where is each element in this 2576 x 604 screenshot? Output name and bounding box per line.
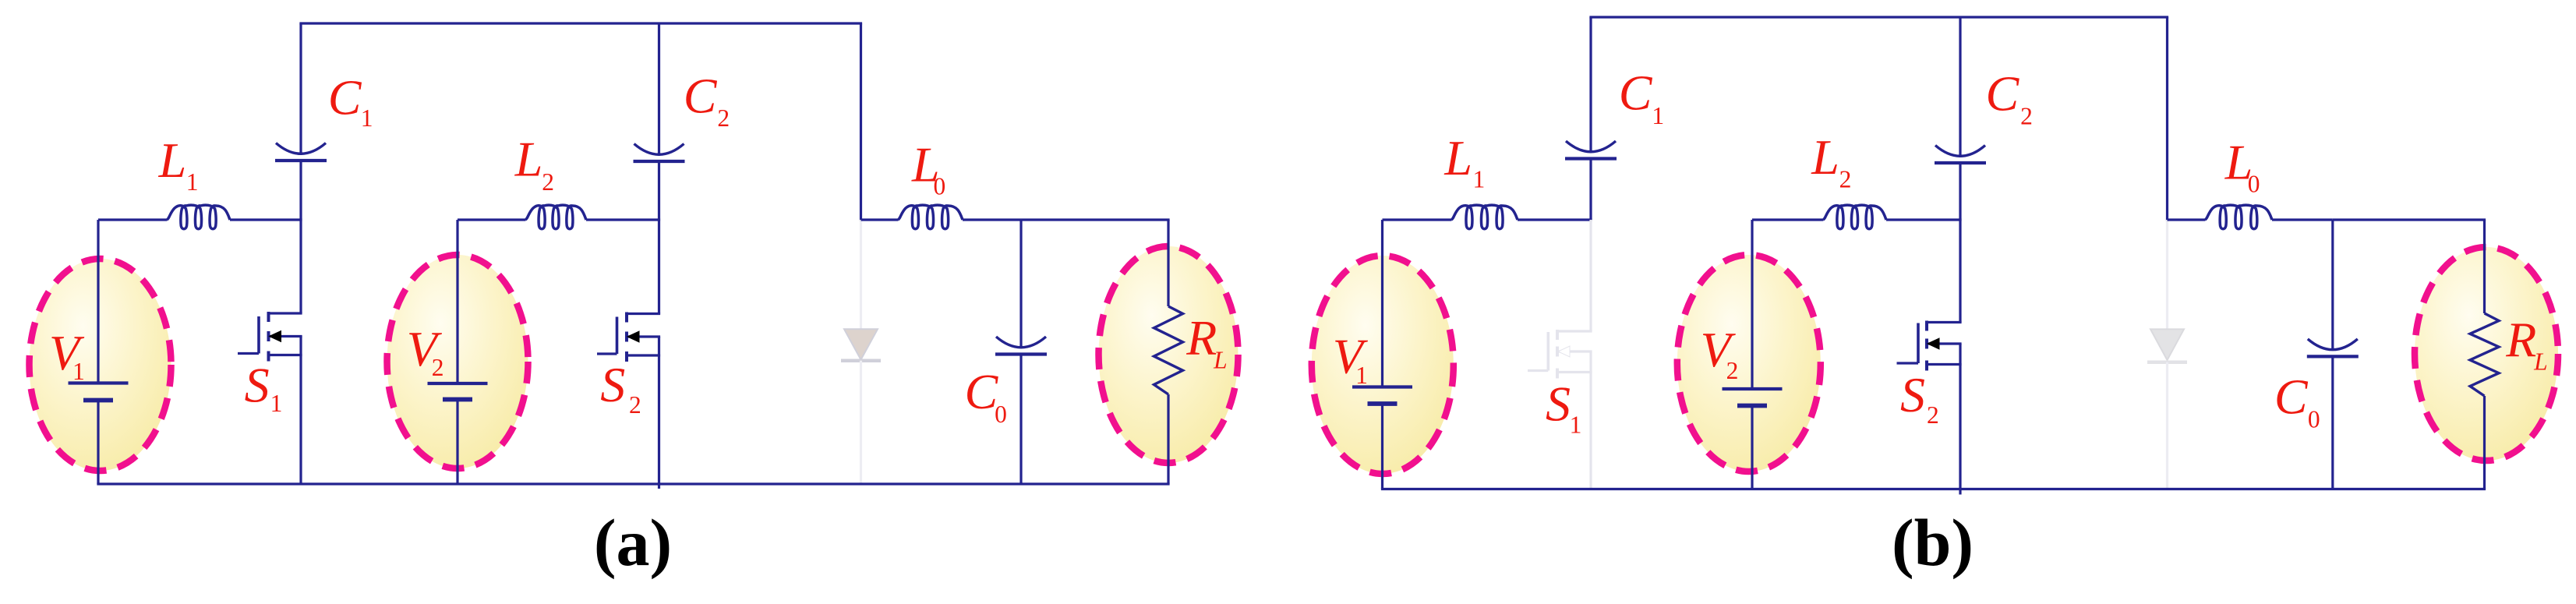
wire node to L0 (b) bbox=[2168, 218, 2206, 221]
wire RL top lead bbox=[1167, 220, 1169, 306]
capacitor C2 bbox=[634, 144, 684, 155]
wire V2 to L2 (b) bbox=[1752, 218, 1823, 221]
wire L2 to C2 node (b) bbox=[1886, 218, 1962, 221]
battery V1 bbox=[69, 381, 129, 384]
svg-text:C: C bbox=[684, 69, 718, 124]
wire diode anode (b, gray) bbox=[2166, 220, 2168, 329]
transistor S2 (b) bbox=[1925, 321, 1928, 331]
wire top rail right riser (b) bbox=[2166, 17, 2168, 221]
voltage source V1 bottom lead bbox=[97, 401, 99, 485]
voltage source V2 bottom lead bbox=[456, 400, 458, 485]
voltage source V1 top lead (b) bbox=[1381, 220, 1383, 387]
svg-text:1: 1 bbox=[72, 358, 85, 385]
voltage source V2 top lead bbox=[456, 220, 458, 383]
wire C1 to node L1 (b) bbox=[1589, 159, 1592, 221]
voltage source V2 bottom lead (b) bbox=[1751, 406, 1753, 489]
wire L1 to C1/S1 node bbox=[230, 218, 302, 221]
wire bottom rail (a) bbox=[97, 482, 1169, 485]
highlight ellipse around V2 bbox=[387, 255, 528, 468]
wire diode anode (inactive, gray) bbox=[860, 220, 862, 329]
wire S1 drain (b, inactive gray) bbox=[1589, 220, 1592, 331]
svg-text:0: 0 bbox=[934, 173, 946, 200]
diode D (inactive, gray) bbox=[844, 329, 878, 359]
wire top rail right riser bbox=[860, 23, 862, 221]
svg-text:0: 0 bbox=[2248, 171, 2260, 198]
wire V1 to L1 (b) bbox=[1383, 218, 1452, 221]
inductor L2 (b) bbox=[1823, 205, 1886, 229]
svg-text:C: C bbox=[328, 70, 362, 125]
svg-text:1: 1 bbox=[1473, 166, 1486, 193]
svg-text:1: 1 bbox=[186, 168, 199, 196]
svg-text:C: C bbox=[1619, 65, 1653, 121]
svg-text:L: L bbox=[158, 132, 187, 188]
svg-text:1: 1 bbox=[1570, 411, 1582, 438]
voltage source V2 top lead (b) bbox=[1751, 220, 1753, 389]
highlight ellipse around V2 (b) bbox=[1677, 255, 1821, 472]
wire RL top lead (b) bbox=[2483, 220, 2486, 313]
wire V1 to L1 bbox=[98, 218, 167, 221]
wire diode cathode to bottom rail (gray) bbox=[860, 361, 862, 484]
svg-text:2: 2 bbox=[1726, 357, 1739, 384]
svg-text:(b): (b) bbox=[1892, 505, 1974, 580]
wire V2 to L2 bbox=[458, 218, 525, 221]
svg-text:S: S bbox=[1900, 367, 1925, 422]
wire RL bottom lead bbox=[1167, 394, 1169, 484]
wire C1 to node L1/S1 bbox=[299, 161, 302, 220]
wire L1 to C1 node (b) bbox=[1518, 218, 1592, 221]
svg-text:S: S bbox=[1546, 376, 1571, 432]
svg-text:2: 2 bbox=[1927, 401, 1939, 429]
wire C2 top lead (b) bbox=[1959, 17, 1961, 157]
svg-text:S: S bbox=[600, 357, 625, 412]
svg-text:S: S bbox=[245, 358, 270, 413]
transistor S2 bbox=[625, 313, 628, 323]
wire C0 top lead bbox=[1019, 220, 1022, 348]
svg-text:R: R bbox=[2505, 312, 2536, 367]
wire top rail (b) bbox=[1589, 16, 2168, 18]
wire top rail (a) bbox=[299, 22, 862, 24]
battery V1 (b) bbox=[1352, 385, 1412, 388]
inductor L2 bbox=[525, 205, 586, 229]
wire C0 top lead (b) bbox=[2331, 220, 2334, 351]
wire RL bottom lead (b) bbox=[2483, 396, 2486, 489]
inductor L0 bbox=[898, 205, 963, 229]
wire L2 to C2/S2 node bbox=[586, 218, 660, 221]
wire C2 to S2 drain bbox=[658, 161, 660, 314]
wire C1 top lead bbox=[299, 23, 302, 155]
capacitor C0 (b) bbox=[2308, 339, 2358, 350]
highlight ellipse around V1 (b) bbox=[1312, 256, 1454, 474]
svg-text:L: L bbox=[1811, 129, 1839, 185]
svg-text:1: 1 bbox=[361, 104, 373, 132]
svg-text:1: 1 bbox=[1652, 102, 1664, 129]
wire bottom rail (b) bbox=[1381, 488, 2486, 490]
svg-text:0: 0 bbox=[2308, 405, 2320, 433]
svg-text:2: 2 bbox=[542, 168, 554, 196]
wire S1 source to bottom rail (b, gray) bbox=[1589, 351, 1592, 489]
svg-text:(a): (a) bbox=[594, 505, 672, 580]
voltage source V1 top lead bbox=[97, 220, 99, 383]
inductor L0 (b) bbox=[2205, 205, 2272, 229]
wire C1 top lead (b) bbox=[1589, 17, 1592, 153]
wire L0 to C0 node (b) bbox=[2272, 218, 2333, 221]
wire L0 to C0 node bbox=[963, 218, 1021, 221]
highlight ellipse around RL bbox=[1099, 246, 1239, 463]
svg-text:2: 2 bbox=[1839, 166, 1852, 193]
svg-text:L: L bbox=[2533, 348, 2548, 375]
diode D (b, inactive gray) bbox=[2150, 329, 2184, 360]
capacitor C0 bbox=[996, 337, 1046, 348]
svg-text:R: R bbox=[1186, 310, 1217, 366]
wire S2 source to bottom rail bbox=[658, 337, 660, 489]
svg-text:0: 0 bbox=[995, 401, 1007, 428]
wire diode cathode to bottom rail (b, gray) bbox=[2166, 362, 2168, 489]
inductor L1 bbox=[167, 205, 230, 229]
inductor L1 (b) bbox=[1451, 205, 1518, 229]
svg-text:1: 1 bbox=[1355, 362, 1368, 389]
wire S1 source to bottom rail bbox=[299, 337, 302, 485]
wire C2 top lead bbox=[658, 23, 660, 156]
svg-text:L: L bbox=[1213, 347, 1228, 374]
svg-text:2: 2 bbox=[2020, 103, 2033, 130]
wire C0 node to RL bbox=[1021, 218, 1170, 221]
wire S1 drain bbox=[299, 220, 302, 313]
highlight ellipse around RL (b) bbox=[2415, 247, 2558, 461]
svg-text:1: 1 bbox=[270, 390, 283, 417]
svg-text:2: 2 bbox=[629, 391, 641, 419]
wire C0 bottom lead bbox=[1019, 355, 1022, 485]
resistor RL (b) bbox=[2470, 313, 2499, 396]
capacitor C1 bbox=[276, 143, 326, 154]
svg-text:C: C bbox=[1986, 65, 2020, 121]
capacitor C1 (b) bbox=[1566, 141, 1616, 152]
svg-text:L: L bbox=[1443, 130, 1472, 185]
svg-text:L: L bbox=[514, 132, 543, 187]
svg-text:C: C bbox=[2274, 369, 2309, 425]
transistor S1 bbox=[267, 312, 270, 322]
svg-text:2: 2 bbox=[432, 354, 444, 381]
wire node to L0 bbox=[861, 218, 899, 221]
wire C0 node to RL (b) bbox=[2333, 218, 2486, 221]
battery V2 (b) bbox=[1723, 387, 1783, 390]
svg-text:C: C bbox=[965, 364, 999, 419]
wire C2 to S2 drain (b) bbox=[1959, 163, 1961, 323]
svg-text:2: 2 bbox=[717, 104, 730, 132]
wire C0 bottom lead (b) bbox=[2331, 356, 2334, 489]
battery V2 bbox=[428, 382, 488, 385]
voltage source V1 bottom lead (b) bbox=[1381, 404, 1383, 489]
resistor RL bbox=[1154, 306, 1183, 394]
wire S2 source to bottom rail (b) bbox=[1959, 344, 1961, 495]
transistor S1 (b, inactive gray) bbox=[1556, 330, 1559, 340]
highlight ellipse around V1 bbox=[30, 259, 171, 471]
capacitor C2 (b) bbox=[1935, 146, 1985, 157]
